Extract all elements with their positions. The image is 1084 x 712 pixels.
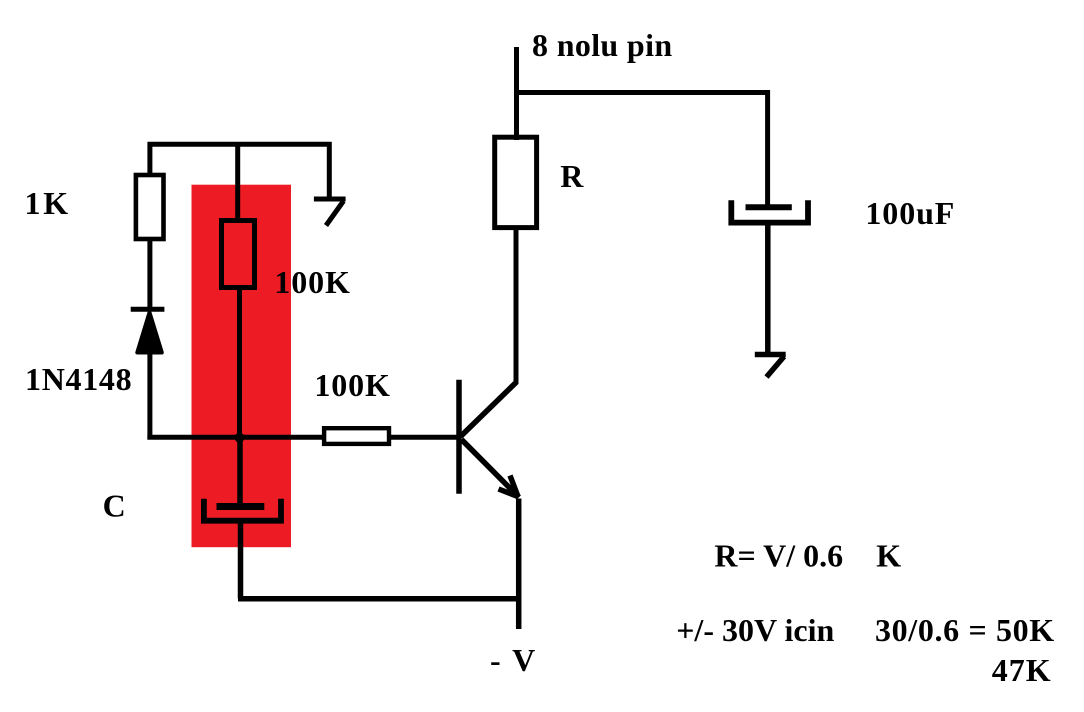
wire: bottom horizontal to emitter — [238, 596, 519, 602]
svg-text:K: K — [876, 538, 901, 574]
wire: horizontal node wire from diode column to 100K series resistor — [147, 435, 324, 440]
wire: stub down to top-right ground — [327, 142, 332, 199]
ground (under 100uF) bar — [755, 352, 786, 358]
svg-text:1K: 1K — [25, 185, 72, 221]
wire: top horizontal to 100uF — [514, 90, 768, 95]
transistor Q1 emitter arrowhead barbs — [499, 476, 519, 497]
wire: down to 100uF top plate — [765, 90, 770, 206]
resistor 100K series body (horizontal) — [324, 428, 389, 444]
ground (top-right) bar — [314, 197, 346, 202]
svg-text:R= V/ 0.6: R= V/ 0.6 — [714, 538, 843, 574]
svg-text:1N4148: 1N4148 — [25, 361, 132, 397]
wire: junction down to capacitor C plate — [237, 437, 243, 505]
resistor R body — [495, 137, 537, 227]
resistor 1K body — [136, 175, 164, 239]
capacitor C top plate — [217, 503, 265, 510]
transistor Q1 emitter diagonal — [462, 440, 520, 498]
diode 1N4148 triangle (anode, pointing up) — [137, 313, 162, 353]
wire: stub down to 100K vertical resistor top — [235, 142, 240, 219]
svg-text:8 nolu pin: 8 nolu pin — [532, 27, 672, 63]
wire: R top stub to 8-pin node — [514, 47, 519, 140]
wire: 100uF bottom to ground — [765, 223, 771, 355]
svg-text:100K: 100K — [314, 367, 390, 403]
wire: diode anode down to base node wire — [147, 352, 152, 440]
svg-text:C: C — [103, 488, 126, 524]
wire: stub down to 1K resistor top — [147, 142, 152, 174]
svg-text:100K: 100K — [274, 264, 350, 300]
capacitor 100uF curved bottom plate (U bracket) — [731, 200, 808, 222]
wire: capacitor C bottom down and right along bottom — [238, 521, 244, 599]
ground (under 100uF) diagonal stroke — [767, 357, 785, 378]
node junction dot — [235, 433, 245, 443]
wire: emitter down past bottom bus to -V — [516, 499, 522, 630]
red highlight rectangle over 100K/C branch — [192, 185, 292, 548]
capacitor C curved bottom plate (U bracket) — [204, 499, 281, 521]
diode 1N4148 cathode bar — [131, 307, 165, 312]
transistor Q1 base bar — [456, 380, 462, 494]
wire: 100K series to transistor base — [389, 435, 461, 440]
wire: top-left horizontal bus — [148, 142, 332, 147]
svg-text:100uF: 100uF — [865, 195, 955, 231]
svg-text:30/0.6 = 50K: 30/0.6 = 50K — [875, 612, 1055, 648]
resistor 100K vertical body (inside red) — [222, 221, 255, 288]
svg-text:R: R — [560, 158, 584, 194]
wire: collector up to resistor R — [514, 230, 519, 384]
transistor Q1 collector diagonal — [461, 382, 517, 437]
svg-text:- V: - V — [490, 642, 537, 678]
wire: 1K bottom to diode cathode — [147, 239, 152, 308]
wire: 100K vertical bottom down to junction — [237, 287, 242, 437]
svg-text:47K: 47K — [992, 652, 1052, 688]
capacitor 100uF top plate — [746, 204, 792, 210]
svg-text:+/- 30V icin: +/- 30V icin — [676, 612, 834, 648]
ground (top-right) diagonal stroke — [326, 201, 344, 226]
